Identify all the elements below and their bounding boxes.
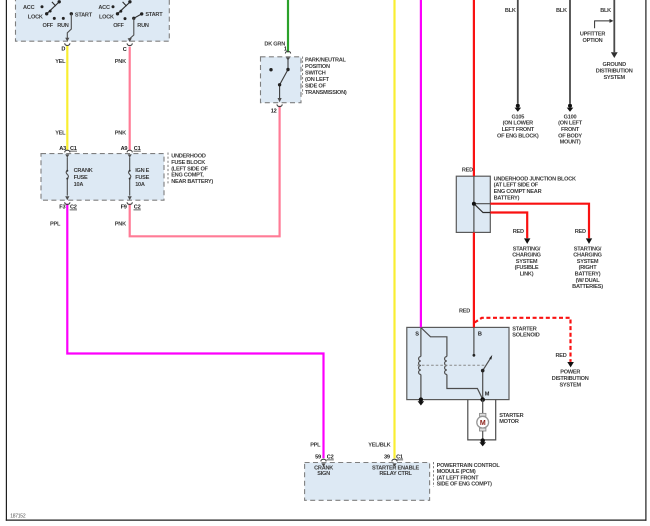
svg-text:SOLENOID: SOLENOID [512, 332, 539, 338]
svg-text:CRANK: CRANK [74, 168, 93, 174]
svg-text:LOCK: LOCK [28, 14, 43, 20]
svg-text:SYSTEM: SYSTEM [577, 259, 599, 265]
svg-text:LEFT FRONT: LEFT FRONT [502, 127, 535, 133]
svg-text:1: 1 [284, 47, 287, 53]
svg-text:PNK: PNK [115, 222, 126, 228]
svg-text:FUSE: FUSE [135, 175, 149, 181]
svg-text:187152: 187152 [10, 513, 26, 519]
svg-text:F9: F9 [121, 205, 127, 211]
svg-text:BATTERY): BATTERY) [494, 196, 520, 202]
svg-text:LOCK: LOCK [99, 14, 114, 20]
svg-text:ACC: ACC [23, 5, 35, 11]
svg-text:PPL: PPL [310, 442, 321, 448]
svg-text:PNK: PNK [115, 59, 126, 65]
svg-text:DK GRN: DK GRN [264, 42, 285, 48]
svg-text:FRONT: FRONT [561, 127, 580, 133]
svg-text:STARTER: STARTER [499, 413, 523, 419]
svg-text:OF BODY: OF BODY [558, 133, 582, 139]
svg-text:BLK: BLK [505, 8, 516, 14]
svg-text:RED: RED [459, 309, 470, 315]
svg-text:M: M [485, 392, 490, 398]
svg-text:BLK: BLK [556, 8, 567, 14]
svg-text:A9: A9 [121, 146, 128, 152]
svg-text:(ON LEFT: (ON LEFT [558, 121, 583, 127]
svg-text:DISTRIBUTION: DISTRIBUTION [552, 376, 589, 382]
svg-text:RED: RED [555, 353, 566, 359]
svg-text:B: B [478, 332, 482, 338]
svg-text:G100: G100 [564, 114, 577, 120]
svg-text:(ON LEFT: (ON LEFT [305, 77, 330, 83]
svg-text:CHARGING: CHARGING [512, 253, 540, 259]
svg-text:UNDERHOOD: UNDERHOOD [171, 154, 206, 160]
svg-text:G105: G105 [511, 114, 524, 120]
svg-text:C: C [123, 47, 127, 53]
svg-text:PARK/NEUTRAL: PARK/NEUTRAL [305, 58, 347, 64]
svg-text:OFF: OFF [43, 23, 54, 29]
svg-text:(W/ DUAL: (W/ DUAL [576, 278, 601, 284]
svg-text:MODULE (PCM): MODULE (PCM) [437, 469, 476, 475]
svg-text:OF ENG BLOCK): OF ENG BLOCK) [497, 133, 539, 139]
svg-text:D: D [61, 47, 65, 53]
svg-text:CHARGING: CHARGING [573, 253, 601, 259]
svg-text:START: START [75, 12, 93, 18]
svg-text:RED: RED [575, 229, 586, 235]
svg-text:(LEFT SIDE OF: (LEFT SIDE OF [171, 166, 208, 172]
svg-text:RUN: RUN [57, 23, 69, 29]
svg-text:SWITCH: SWITCH [305, 71, 326, 77]
svg-text:FUSE: FUSE [74, 175, 88, 181]
svg-text:RELAY CTRL: RELAY CTRL [379, 471, 412, 477]
svg-text:BATTERIES): BATTERIES) [572, 284, 603, 290]
svg-text:12: 12 [271, 109, 277, 115]
svg-text:OPTION: OPTION [583, 38, 603, 44]
svg-text:39: 39 [384, 455, 390, 461]
svg-text:STARTING/: STARTING/ [574, 246, 602, 252]
svg-text:(AT LEFT SIDE OF: (AT LEFT SIDE OF [494, 183, 539, 189]
svg-text:10A: 10A [74, 182, 84, 188]
svg-text:YEL: YEL [55, 59, 66, 65]
svg-text:F3: F3 [59, 205, 65, 211]
svg-text:OFF: OFF [113, 23, 124, 29]
svg-text:ENG COMPT NEAR: ENG COMPT NEAR [494, 189, 542, 195]
svg-text:MOUNT): MOUNT) [560, 140, 581, 146]
svg-text:59: 59 [315, 455, 321, 461]
svg-text:RED: RED [513, 229, 524, 235]
svg-text:ENG COMPT,: ENG COMPT, [171, 173, 204, 179]
svg-text:M: M [480, 420, 486, 427]
svg-text:(AT LEFT FRONT: (AT LEFT FRONT [437, 475, 480, 481]
svg-text:MOTOR: MOTOR [499, 419, 519, 425]
svg-text:SYSTEM: SYSTEM [516, 259, 538, 265]
svg-text:YEL/BLK: YEL/BLK [368, 442, 390, 448]
svg-text:IGN E: IGN E [135, 168, 149, 174]
svg-text:PPL: PPL [50, 222, 61, 228]
svg-text:(FUSIBLE: (FUSIBLE [515, 265, 539, 271]
svg-text:10A: 10A [135, 182, 145, 188]
svg-text:FUSE BLOCK: FUSE BLOCK [171, 160, 205, 166]
svg-text:RED: RED [462, 168, 473, 174]
svg-text:SIDE OF ENG COMPT): SIDE OF ENG COMPT) [437, 482, 493, 488]
svg-text:GROUND: GROUND [603, 62, 627, 68]
svg-text:SYSTEM: SYSTEM [559, 382, 581, 388]
svg-text:POSITION: POSITION [305, 64, 330, 70]
svg-text:BLK: BLK [600, 8, 611, 14]
svg-text:TRANSMISSION): TRANSMISSION) [305, 90, 347, 96]
svg-text:UNDERHOOD JUNCTION BLOCK: UNDERHOOD JUNCTION BLOCK [494, 176, 576, 182]
svg-text:A3: A3 [59, 146, 66, 152]
svg-text:(ON LOWER: (ON LOWER [503, 121, 534, 127]
svg-text:UPFITTER: UPFITTER [580, 31, 606, 37]
svg-text:STARTING/: STARTING/ [513, 246, 541, 252]
svg-text:ACC: ACC [98, 5, 110, 11]
svg-text:RUN: RUN [137, 23, 149, 29]
svg-text:YEL: YEL [55, 130, 66, 136]
svg-text:LINK): LINK) [520, 272, 534, 278]
svg-text:SIGN: SIGN [317, 471, 330, 477]
svg-text:PNK: PNK [115, 130, 126, 136]
svg-text:POWER: POWER [560, 370, 580, 376]
svg-text:SYSTEM: SYSTEM [603, 75, 625, 81]
svg-text:START: START [145, 12, 163, 18]
svg-text:BATTERY): BATTERY) [575, 272, 601, 278]
svg-text:POWERTRAIN CONTROL: POWERTRAIN CONTROL [437, 463, 501, 469]
svg-text:S: S [415, 332, 419, 338]
svg-text:NEAR BATTERY): NEAR BATTERY) [171, 179, 213, 185]
svg-text:SIDE OF: SIDE OF [305, 84, 326, 90]
svg-text:(RIGHT: (RIGHT [579, 265, 598, 271]
svg-text:DISTRIBUTION: DISTRIBUTION [596, 68, 633, 74]
